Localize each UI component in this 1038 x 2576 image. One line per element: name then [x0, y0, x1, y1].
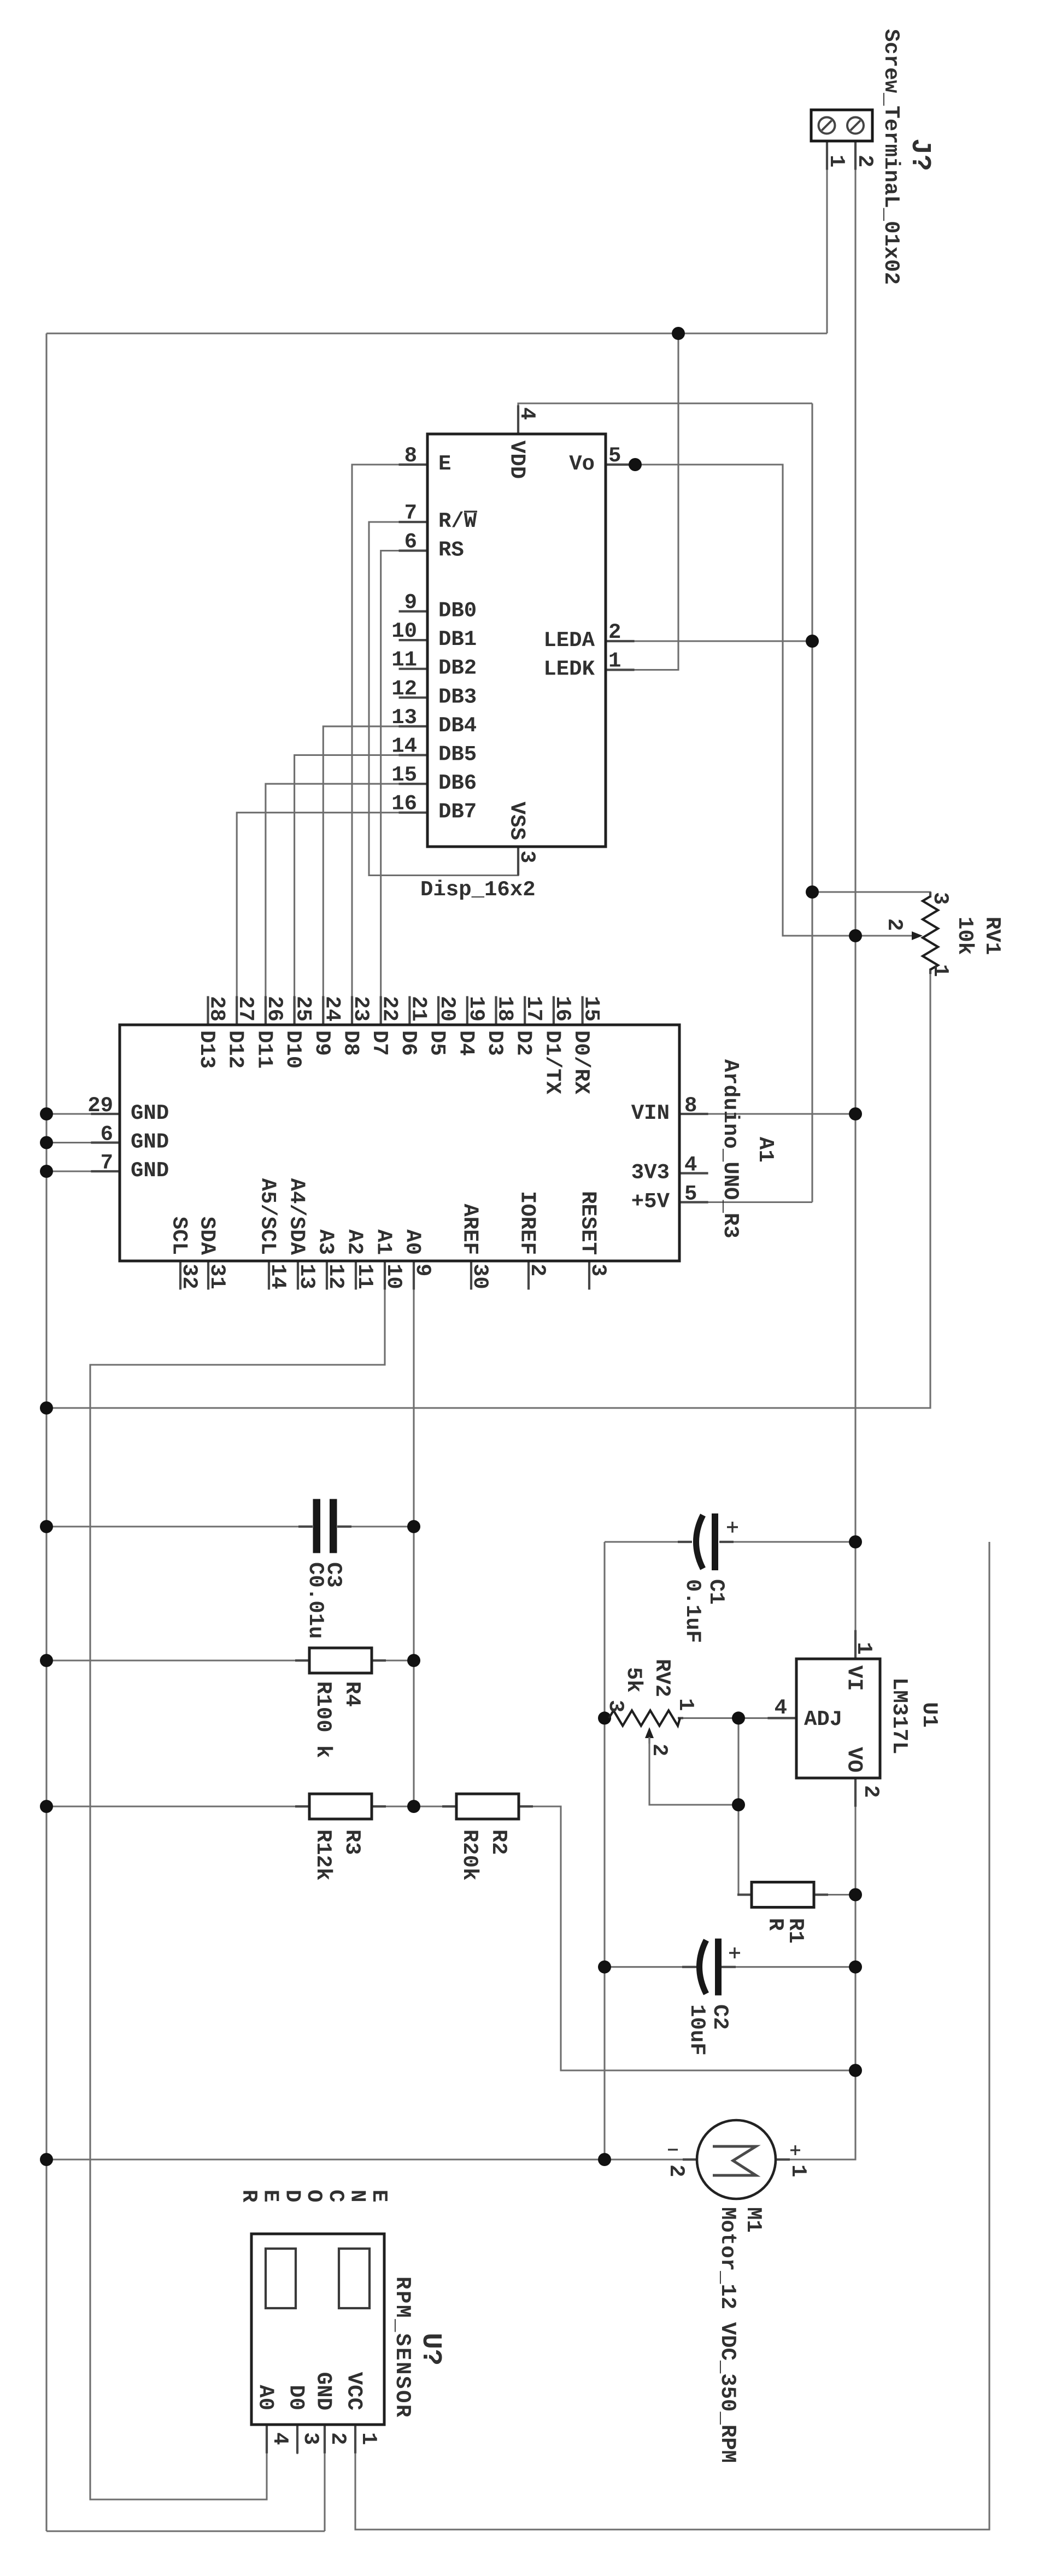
svg-text:GND: GND — [312, 2372, 336, 2410]
svg-text:U1: U1 — [917, 1702, 941, 1728]
wire Arduino GND pin 7 to rail — [46, 1170, 120, 1172]
junction Vo wire — [629, 458, 642, 471]
pin 21 stub of Arduino — [408, 996, 410, 1025]
capacitor C1 straight plate — [712, 1513, 718, 1570]
wire C2 minus to gnd column — [605, 1966, 696, 1968]
svg-text:10: 10 — [391, 619, 417, 643]
pin 3 stub of RV1 — [929, 892, 931, 897]
svg-text:24: 24 — [320, 996, 344, 1022]
pin 30 stub of Arduino — [470, 1261, 472, 1290]
pin 24 stub of Arduino — [322, 996, 324, 1025]
wire display DB5 to Arduino D10 — [295, 755, 427, 1025]
svg-text:D4: D4 — [454, 1030, 478, 1056]
pin 25 stub of Arduino — [293, 996, 295, 1025]
svg-text:3: 3 — [515, 850, 539, 863]
svg-text:A1: A1 — [753, 1137, 777, 1163]
svg-text:Screw_TerminaL_01x02: Screw_TerminaL_01x02 — [879, 29, 903, 285]
wire sensor VCC to +12V branch — [355, 1542, 989, 2530]
svg-text:Motor_12 VDC_350_RPM: Motor_12 VDC_350_RPM — [716, 2207, 740, 2463]
svg-text:+5V: +5V — [631, 1190, 670, 1214]
svg-text:1: 1 — [786, 2164, 810, 2177]
pin 29 stub of Arduino — [91, 1113, 120, 1115]
svg-text:32: 32 — [177, 1264, 201, 1289]
pin Arduino 21 stub — [409, 996, 410, 1025]
svg-text:1: 1 — [928, 964, 952, 977]
svg-text:GND: GND — [131, 1159, 169, 1183]
svg-text:A0: A0 — [254, 2385, 278, 2410]
junction rail GND pin6 — [40, 1136, 53, 1149]
junction top line / LEDK — [672, 327, 685, 340]
svg-text:SCL: SCL — [167, 1217, 191, 1255]
pin 19 stub of Arduino — [466, 996, 468, 1025]
wire ADJ node down to R1 — [738, 1718, 752, 1894]
svg-text:D12: D12 — [224, 1030, 248, 1069]
motor M1 letter M — [713, 2146, 756, 2175]
pin 3 stub of RV2 — [606, 1717, 611, 1719]
sensor U? RPM_SENSOR body — [251, 2234, 384, 2425]
svg-text:A2: A2 — [343, 1229, 367, 1255]
svg-text:D5: D5 — [425, 1030, 449, 1056]
svg-text:VDD: VDD — [505, 441, 529, 479]
svg-text:LM317L: LM317L — [887, 1677, 911, 1754]
svg-text:D2: D2 — [512, 1030, 536, 1056]
wire +5V into Arduino pin5 — [679, 1201, 812, 1203]
svg-text:RV2: RV2 — [650, 1659, 674, 1697]
lead pin2 of M1 — [683, 2158, 697, 2161]
screw circle of J? — [847, 118, 864, 134]
wire RV2 wiper down and right — [649, 1737, 738, 1805]
svg-text:14: 14 — [391, 735, 417, 759]
pin 7 stub of Arduino — [91, 1170, 120, 1172]
svg-text:DB6: DB6 — [438, 771, 477, 795]
svg-text:13: 13 — [295, 1264, 319, 1289]
lead right of R4 — [372, 1659, 386, 1662]
svg-text:28: 28 — [205, 996, 229, 1022]
pin DB5 stub of display — [399, 754, 428, 756]
pin 3 stub of Arduino — [588, 1261, 590, 1290]
wire LEDK pin1 to top line — [606, 333, 678, 670]
pin DB4 stub of display — [399, 725, 428, 727]
svg-text:DB0: DB0 — [438, 599, 477, 623]
pin 9 stub of Arduino — [413, 1261, 415, 1290]
pin DB0 stub of display — [399, 610, 428, 612]
wire sensor GND stub — [324, 2425, 325, 2531]
pin VSS stub of display — [517, 847, 519, 876]
wire net J2.1 top horizontal — [46, 332, 827, 334]
capacitor C3 right plate — [330, 1499, 337, 1553]
wire display R/W to VSS — [369, 522, 518, 876]
junction rail GND pin7 — [40, 1165, 53, 1178]
pin 6 stub of Arduino — [91, 1141, 120, 1143]
svg-text:10: 10 — [382, 1264, 406, 1289]
svg-text:4: 4 — [515, 407, 539, 420]
wire +12V column: screw J2 pin2 to U1 VI — [854, 141, 856, 1659]
pin Arduino 11 stub — [355, 1261, 356, 1290]
pin 2 stub of J? — [854, 141, 857, 170]
wire display DB4 to Arduino D9 — [323, 726, 427, 1025]
svg-text:5k: 5k — [621, 1667, 646, 1693]
junction VIN / +12V column — [849, 1107, 862, 1120]
regulator U1 LM317L body — [796, 1659, 880, 1778]
svg-text:2: 2 — [608, 620, 621, 644]
svg-text:30: 30 — [468, 1264, 492, 1289]
svg-text:25: 25 — [291, 996, 315, 1022]
wire screw J2 pin1 drop — [826, 141, 828, 333]
svg-text:R: R — [237, 2190, 261, 2203]
pin Vo stub of display — [606, 463, 635, 466]
junction rail / C3 — [40, 1520, 53, 1533]
resistor R4 — [309, 1648, 372, 1673]
svg-text:IOREF: IOREF — [515, 1191, 539, 1255]
svg-text:RPM_SENSOR: RPM_SENSOR — [390, 2276, 414, 2419]
lead left of R3 — [295, 1805, 309, 1808]
svg-text:10k: 10k — [953, 917, 977, 955]
resistor R2 — [456, 1794, 519, 1819]
wire RV2 pin1 to ADJ — [680, 1717, 796, 1719]
svg-text:DB4: DB4 — [438, 714, 477, 738]
svg-text:R3: R3 — [340, 1829, 364, 1855]
svg-text:19: 19 — [464, 996, 488, 1022]
svg-text:E: E — [367, 2190, 391, 2202]
Arduino A1 body — [120, 1025, 679, 1261]
wire +5V column down — [811, 403, 813, 1202]
pin Arduino 30 stub — [470, 1261, 472, 1290]
svg-text:4: 4 — [684, 1153, 697, 1177]
svg-text:Vo: Vo — [569, 452, 595, 476]
wire U1 VO down to motor pin1 — [776, 1778, 855, 2160]
svg-text:0.1uF: 0.1uF — [681, 1579, 705, 1643]
pin Arduino 20 stub — [438, 996, 439, 1025]
svg-text:VIN: VIN — [631, 1101, 670, 1125]
screw slot of J? — [822, 121, 832, 131]
svg-text:D9: D9 — [310, 1030, 334, 1056]
svg-text:3: 3 — [586, 1264, 610, 1276]
pin 1 stub of RV1 — [929, 969, 931, 974]
motor M1 minus sign — [668, 2149, 678, 2150]
pin display DB3 stub — [399, 697, 428, 699]
pin 26 stub of Arduino — [265, 996, 267, 1025]
svg-text:RESET: RESET — [576, 1191, 600, 1255]
pin Arduino 12 stub — [326, 1261, 327, 1290]
junction rail / R3 — [40, 1800, 53, 1813]
lead pin1 of M1 — [776, 2158, 790, 2161]
svg-text:RS: RS — [438, 538, 464, 562]
svg-text:2: 2 — [853, 155, 877, 167]
pin Arduino 2 stub — [527, 1261, 529, 1290]
junction +5V column / RV1 pin3 — [806, 885, 819, 899]
pin 4 stub of sensor — [266, 2425, 268, 2454]
svg-text:Arduino_UNO_R3: Arduino_UNO_R3 — [718, 1059, 742, 1239]
svg-text:15: 15 — [391, 763, 417, 787]
svg-text:3: 3 — [298, 2432, 322, 2445]
junction R4 / A0 column — [407, 1654, 420, 1667]
svg-text:4: 4 — [268, 2432, 292, 2445]
svg-text:LEDK: LEDK — [543, 658, 595, 682]
wire Arduino VIN pin8 to +12V column — [679, 1113, 855, 1114]
lead right of C3 — [337, 1525, 351, 1528]
svg-text:8: 8 — [404, 444, 417, 468]
wire R1 right to VO column — [814, 1894, 855, 1896]
svg-text:16: 16 — [550, 996, 574, 1022]
screw slot of J? — [851, 121, 860, 131]
pin 1 stub of RV2 — [678, 1717, 683, 1719]
wire A0 column to R2 — [414, 1805, 456, 1807]
svg-text:3V3: 3V3 — [631, 1161, 670, 1185]
pin 5 stub of Arduino — [679, 1201, 708, 1203]
pin 1 stub of sensor — [354, 2425, 356, 2454]
svg-text:13: 13 — [391, 706, 417, 730]
pin Arduino 17 stub — [524, 996, 526, 1025]
svg-text:RV1: RV1 — [980, 917, 1004, 955]
svg-text:VSS: VSS — [505, 802, 529, 840]
svg-text:2: 2 — [326, 2432, 350, 2445]
junction gnd column / motor wire — [598, 2153, 611, 2166]
svg-text:21: 21 — [406, 996, 430, 1022]
svg-text:M1: M1 — [741, 2207, 765, 2233]
junction rail / motor wire — [40, 2153, 53, 2166]
pin LEDA stub of display — [606, 640, 635, 642]
svg-text:C0.01u: C0.01u — [303, 1562, 327, 1639]
junction rail / RV1 gnd line — [40, 1401, 53, 1415]
capacitor C2 curved plate — [700, 1940, 707, 1994]
svg-text:7: 7 — [101, 1151, 113, 1175]
pin 16 stub of Arduino — [553, 996, 555, 1025]
pin 14 stub of Arduino — [268, 1261, 270, 1290]
junction C2 / VO column — [849, 1961, 862, 1974]
overline of R/W pin name — [464, 510, 477, 512]
wire R4 right to A0 column — [372, 1659, 414, 1661]
svg-text:DB3: DB3 — [438, 685, 477, 709]
svg-text:D11: D11 — [252, 1030, 276, 1069]
junction RV2 wiper / ADJ node — [732, 1798, 745, 1811]
svg-text:7: 7 — [404, 501, 417, 525]
svg-text:2: 2 — [647, 1744, 671, 1756]
wire rail bottom to sensor GND — [46, 2530, 325, 2532]
svg-text:2: 2 — [664, 2164, 688, 2177]
svg-text:C2: C2 — [708, 2004, 732, 2030]
pin 22 stub of Arduino — [380, 996, 382, 1025]
potentiometer RV1 wiper arrow — [912, 931, 923, 940]
svg-text:27: 27 — [233, 996, 257, 1022]
svg-text:R2: R2 — [486, 1829, 511, 1855]
pin RS stub of display — [399, 549, 428, 551]
svg-text:VO: VO — [842, 1747, 866, 1773]
lead left of R1 — [737, 1893, 752, 1896]
svg-text:2: 2 — [859, 1785, 883, 1798]
pin E stub of display — [399, 463, 428, 466]
wire R4 left to rail — [46, 1659, 309, 1661]
wire Vo pin5 to RV1 wiper — [606, 465, 914, 936]
svg-text:D7: D7 — [367, 1030, 391, 1056]
pin Arduino 19 stub — [466, 996, 468, 1025]
svg-text:22: 22 — [378, 996, 402, 1022]
lead right of R3 — [372, 1805, 386, 1808]
svg-text:GND: GND — [131, 1101, 169, 1125]
wire Arduino GND pin 29 to rail — [46, 1113, 120, 1114]
svg-text:R4: R4 — [340, 1681, 364, 1707]
pin 32 stub of Arduino — [179, 1261, 181, 1290]
wire R2 right to VO node — [519, 1806, 855, 2070]
svg-text:DB2: DB2 — [438, 656, 477, 680]
pin 13 stub of Arduino — [297, 1261, 299, 1290]
pin DB7 stub of display — [399, 812, 428, 814]
svg-text:D13: D13 — [195, 1030, 219, 1069]
svg-text:A5/SCL: A5/SCL — [256, 1178, 280, 1255]
svg-text:9: 9 — [404, 591, 417, 615]
capacitor C1 plus sign — [727, 1522, 738, 1533]
svg-text:O: O — [302, 2190, 326, 2202]
junction RV2 pin1 / ADJ node — [732, 1711, 745, 1724]
wire R3 left to rail — [46, 1805, 309, 1807]
svg-text:E: E — [438, 452, 451, 476]
svg-text:1: 1 — [673, 1698, 697, 1711]
svg-text:4: 4 — [775, 1696, 787, 1720]
wire Arduino GND pin 6 to rail — [46, 1142, 120, 1143]
wire RV1 pin3 from +5V column — [812, 892, 930, 896]
lead left of C3 — [298, 1525, 313, 1528]
wire C1 minus to gnd column — [605, 1541, 692, 1542]
wire R3 right to A0 column — [372, 1805, 414, 1807]
pin Arduino 3 stub — [588, 1261, 590, 1290]
svg-text:ADJ: ADJ — [804, 1707, 842, 1732]
svg-text:N: N — [345, 2190, 370, 2202]
pin sensor D0 stub — [296, 2425, 298, 2454]
sensor right pad — [339, 2249, 370, 2308]
svg-text:D: D — [280, 2190, 304, 2202]
svg-text:R20k: R20k — [458, 1829, 482, 1881]
svg-text:5: 5 — [684, 1182, 697, 1206]
pin Arduino 15 stub — [582, 996, 583, 1025]
svg-text:17: 17 — [521, 996, 546, 1022]
pin 1 stub of J? — [826, 141, 828, 170]
pin 23 stub of Arduino — [351, 996, 353, 1025]
svg-text:2: 2 — [525, 1264, 549, 1276]
svg-text:8: 8 — [684, 1094, 697, 1118]
svg-text:D8: D8 — [339, 1030, 363, 1056]
pin VI stub of U1 — [854, 1630, 857, 1659]
svg-text:3: 3 — [928, 892, 952, 905]
svg-text:23: 23 — [349, 996, 373, 1022]
resistor R1 — [752, 1882, 814, 1908]
svg-text:3: 3 — [603, 1700, 628, 1712]
svg-text:R/W: R/W — [438, 509, 477, 533]
junction C3 / A0 column — [407, 1520, 420, 1533]
svg-text:10uF: 10uF — [685, 2004, 709, 2056]
lead left of R4 — [295, 1659, 309, 1662]
pin 17 stub of Arduino — [524, 996, 526, 1025]
svg-text:6: 6 — [404, 530, 417, 554]
svg-text:AREF: AREF — [458, 1204, 482, 1255]
screw circle of J? — [819, 118, 835, 134]
connector J? screw terminal body — [811, 110, 872, 141]
svg-text:11: 11 — [353, 1264, 377, 1289]
pin 27 stub of Arduino — [236, 996, 238, 1025]
pin 31 stub of Arduino — [207, 1261, 209, 1290]
wire motor pin2 to ground rail — [46, 2158, 697, 2160]
svg-text:16: 16 — [391, 792, 417, 816]
lead left of C1 — [678, 1541, 692, 1543]
svg-text:1: 1 — [852, 1642, 876, 1654]
wire display E to Arduino D8 — [352, 465, 427, 1025]
wire display DB7 to Arduino D12 — [237, 813, 427, 1025]
svg-text:E: E — [259, 2190, 283, 2202]
svg-text:GND: GND — [131, 1130, 169, 1154]
wire C1 plus to +12V column — [719, 1541, 855, 1542]
wire Arduino A0 column down — [413, 1261, 414, 1806]
wire left ground rail — [45, 333, 47, 2531]
wire C3 right to A0 column — [337, 1525, 414, 1527]
pin DB1 stub of display — [399, 639, 428, 641]
svg-text:12: 12 — [391, 677, 417, 701]
pin Arduino 3V3 stub — [679, 1172, 708, 1174]
capacitor C2 plus sign — [729, 1947, 740, 1958]
potentiometer RV2 wiper arrow — [645, 1727, 654, 1738]
pin DB2 stub of display — [399, 668, 428, 670]
pin 2 stub of Arduino — [527, 1261, 530, 1290]
svg-text:D3: D3 — [483, 1030, 507, 1056]
lead left of C2 — [682, 1966, 696, 1968]
svg-text:LEDA: LEDA — [543, 629, 595, 653]
wire Arduino A1 to sensor A0 — [90, 1261, 385, 2499]
pin VDD stub of display — [517, 406, 519, 435]
svg-text:A4/SDA: A4/SDA — [285, 1178, 309, 1255]
LCD display Disp_16x2 body — [427, 434, 606, 847]
svg-text:A3: A3 — [314, 1229, 338, 1255]
svg-text:J?: J? — [904, 138, 935, 171]
pin Arduino 32 stub — [179, 1261, 181, 1290]
junction LEDA / +5V column — [806, 635, 819, 648]
svg-text:R12k: R12k — [311, 1829, 335, 1881]
pin DB6 stub of display — [399, 783, 428, 785]
wire RV1 pin1 down and to ground rail — [46, 970, 930, 1408]
capacitor C2 straight plate — [715, 1939, 722, 1996]
svg-text:C: C — [324, 2190, 348, 2202]
junction rail GND pin29 — [40, 1107, 53, 1120]
lead right of R1 — [814, 1893, 828, 1896]
svg-text:1: 1 — [608, 649, 621, 673]
pin R/W stub of display — [399, 521, 428, 523]
sensor left pad — [266, 2249, 296, 2308]
pin display DB1 stub — [399, 639, 428, 641]
wire gnd column C1/RV2/C2 to motor — [603, 1542, 605, 2160]
svg-text:DB1: DB1 — [438, 627, 477, 652]
junction C2 minus / gnd column — [598, 1961, 611, 1974]
potentiometer RV1 zigzag — [923, 896, 938, 970]
pin 10 stub of Arduino — [384, 1261, 386, 1290]
svg-text:D0: D0 — [284, 2385, 308, 2410]
svg-text:SDA: SDA — [195, 1217, 219, 1255]
pin 20 stub of Arduino — [437, 996, 439, 1025]
svg-text:R: R — [763, 1918, 787, 1931]
lead right of C1 — [719, 1541, 734, 1543]
pin 2 stub of sensor — [324, 2425, 326, 2454]
pin 8 stub of Arduino — [679, 1113, 708, 1115]
svg-text:U?: U? — [415, 2333, 446, 2366]
pin Arduino 14 stub — [268, 1261, 269, 1290]
svg-text:6: 6 — [101, 1123, 113, 1147]
pin display DB2 stub — [399, 668, 428, 670]
capacitor C1 curved plate — [696, 1515, 703, 1569]
pin 18 stub of Arduino — [495, 996, 497, 1025]
junction RV2 pin3 / gnd column — [598, 1711, 611, 1724]
lead right of C2 — [722, 1966, 736, 1968]
junction R1 / VO column — [849, 1888, 862, 1902]
svg-text:VI: VI — [842, 1665, 866, 1691]
pin Arduino 31 stub — [207, 1261, 209, 1290]
svg-text:5: 5 — [608, 444, 621, 468]
svg-text:1: 1 — [356, 2432, 380, 2445]
pin Arduino 16 stub — [553, 996, 554, 1025]
